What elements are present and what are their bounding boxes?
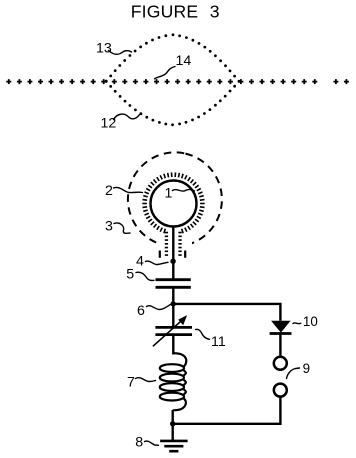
- svg-text:1: 1: [165, 185, 173, 201]
- inductor coil 7: [160, 353, 187, 410]
- wire bottom return from terminals to node: [173, 397, 281, 424]
- lens lower dotted arc 12: [105, 80, 241, 126]
- svg-text:13: 13: [96, 41, 112, 57]
- label 6 with leader: [137, 303, 171, 319]
- svg-text:11: 11: [211, 334, 226, 350]
- bottom junction node: [170, 421, 175, 426]
- title FIGURE 3: [131, 2, 220, 22]
- wire inductor-7 to bottom node and ground: [171, 410, 173, 440]
- label 3 with leader: [105, 219, 130, 235]
- svg-text:10: 10: [303, 314, 318, 329]
- label 7 with leader: [127, 374, 156, 390]
- capacitor 5 plates: [156, 280, 191, 288]
- svg-text:6: 6: [137, 303, 145, 319]
- variable capacitor 11 plates: [155, 327, 192, 334]
- diode 10: [270, 321, 292, 356]
- wire node-6 to diode branch: [173, 304, 280, 321]
- svg-text:3: 3: [105, 219, 113, 235]
- svg-text:7: 7: [127, 374, 135, 390]
- label 9 with leader: [287, 361, 311, 378]
- label 11 with leader: [196, 329, 226, 350]
- node 6: [171, 301, 176, 306]
- label 12 with leader: [101, 114, 140, 132]
- label 2 with leader: [105, 183, 143, 199]
- label 13 with leader: [96, 41, 132, 57]
- wire varcap-11 to inductor-7: [172, 335, 174, 355]
- svg-text:FIGURE: FIGURE: [131, 2, 199, 22]
- insulation ticks along wire: [165, 233, 182, 256]
- variable capacitor 11 arrow: [153, 315, 187, 346]
- charged particle beam line (plus symbols) 14: [6, 79, 349, 84]
- label 8 with leader: [135, 435, 158, 451]
- dashed circle bottom gap ends: [158, 238, 192, 260]
- label 4 with leader: [136, 253, 168, 269]
- radial tick ring 2: [142, 172, 204, 233]
- wire circle-1 to node-4 to capacitor-5: [172, 227, 174, 280]
- svg-text:9: 9: [303, 361, 310, 376]
- svg-text:8: 8: [135, 435, 143, 451]
- svg-text:5: 5: [126, 266, 134, 282]
- electrode circle 1: [151, 181, 197, 227]
- svg-text:14: 14: [176, 53, 192, 69]
- node 4: [170, 259, 175, 264]
- label 5 with leader: [126, 266, 154, 282]
- ground symbol 8: [160, 441, 188, 451]
- svg-text:4: 4: [136, 253, 144, 269]
- label 10 with leader: [293, 314, 318, 329]
- label 14 with leader: [155, 53, 192, 79]
- label 1 with leader: [165, 185, 195, 201]
- svg-text:3: 3: [210, 2, 220, 22]
- wire capacitor-5 to node-6 to varcap-11: [172, 287, 174, 327]
- terminal circles 9: [274, 357, 287, 397]
- svg-text:2: 2: [105, 183, 113, 199]
- lens upper dotted arc 13: [105, 33, 241, 82]
- dashed outline circle 3: [119, 143, 232, 256]
